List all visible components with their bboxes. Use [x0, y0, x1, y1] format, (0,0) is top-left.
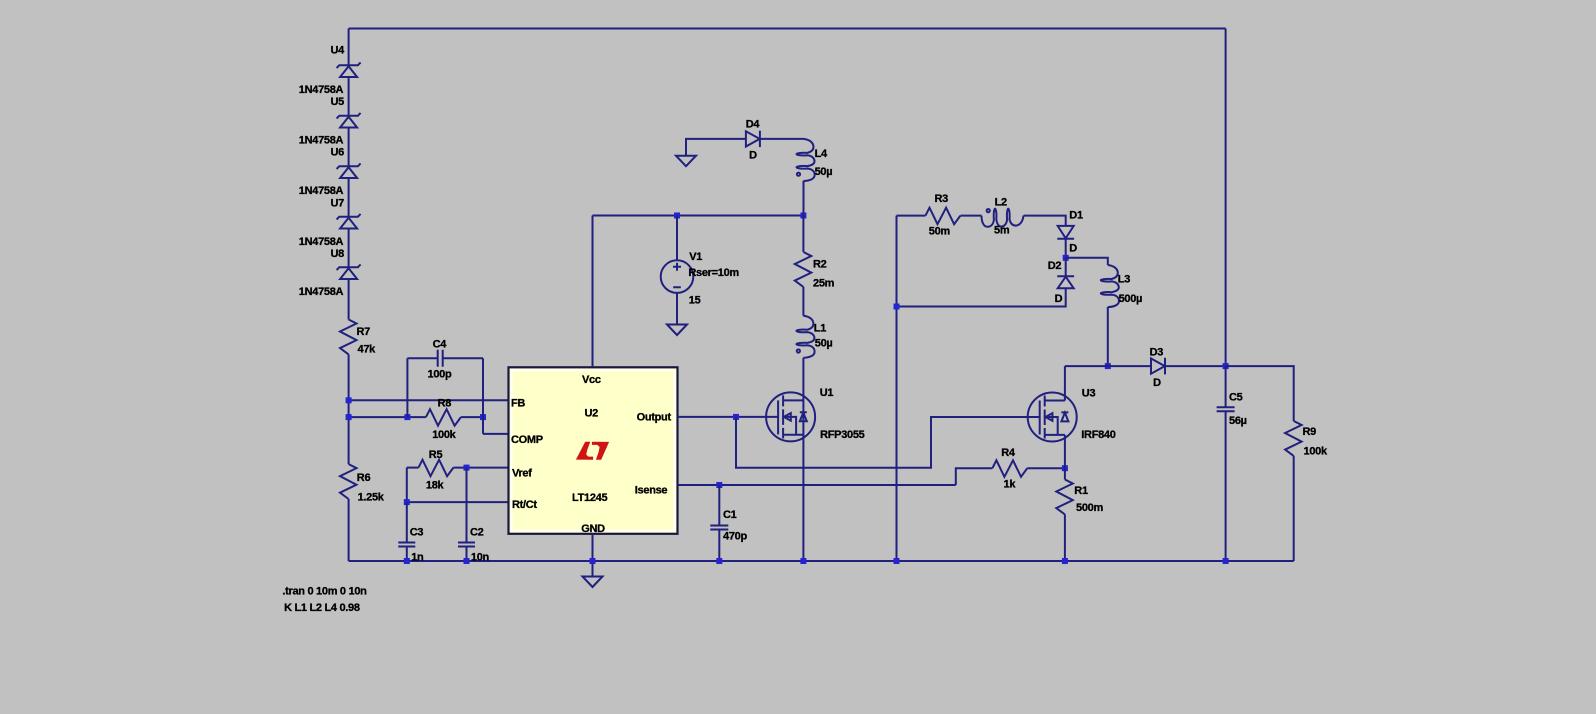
wire GND pin to ground: [592, 534, 594, 577]
svg-text:500m: 500m: [1076, 502, 1103, 514]
transistor U3 IRF840: [1028, 393, 1077, 442]
node V1 top junction: [674, 213, 680, 219]
svg-text:50m: 50m: [929, 225, 951, 237]
zener U4: [337, 62, 361, 77]
svg-text:L4: L4: [815, 148, 828, 160]
svg-text:L3: L3: [1118, 274, 1130, 286]
svg-text:50µ: 50µ: [815, 338, 833, 350]
svg-text:FB: FB: [511, 398, 525, 410]
wire Output pin to U1 gate: [678, 416, 779, 418]
wire D2 to left rail: [897, 288, 1066, 306]
svg-text:C2: C2: [470, 527, 484, 539]
diode D1: [1057, 226, 1074, 239]
svg-text:25m: 25m: [813, 278, 835, 290]
node left rail bottom junction: [894, 558, 900, 564]
wire bottom rail: [349, 560, 1294, 562]
svg-text:Isense: Isense: [635, 484, 668, 496]
resistor R5: [419, 460, 454, 477]
svg-text:U7: U7: [331, 198, 345, 210]
wire D1 to node: [1065, 239, 1067, 258]
svg-text:C5: C5: [1229, 392, 1243, 404]
node C5/top-rail junction: [1223, 363, 1229, 369]
wire D4 to L4: [760, 138, 804, 140]
wire L3 to D3 node: [1107, 307, 1109, 366]
wire Isense: [678, 484, 956, 486]
node GND rail junction: [590, 558, 596, 564]
resistor R6: [340, 464, 357, 499]
svg-text:R1: R1: [1074, 485, 1088, 497]
LT logo: [576, 442, 609, 460]
wire Vcc vertical: [592, 216, 594, 367]
wire Isense up to R4: [956, 468, 993, 485]
zener U8: [337, 264, 361, 279]
wire D3 to C5 node: [1165, 365, 1226, 367]
wire D3 row left: [1065, 365, 1151, 367]
wire C4 right vertical (COMP): [482, 358, 484, 434]
svg-text:D4: D4: [746, 119, 761, 131]
node Vref junction: [464, 465, 470, 471]
svg-text:100k: 100k: [432, 429, 456, 441]
resistor R7: [340, 320, 357, 355]
svg-text:100p: 100p: [428, 369, 452, 381]
svg-text:D3: D3: [1150, 347, 1164, 359]
svg-text:D2: D2: [1048, 260, 1062, 272]
wire U3 source down to R1: [1064, 435, 1066, 480]
wire L2 to D1: [1024, 216, 1066, 226]
svg-text:10n: 10n: [471, 552, 490, 564]
wire R3 to L2: [960, 215, 981, 217]
ground below GND pin: [583, 577, 603, 588]
svg-text:U5: U5: [331, 96, 345, 108]
resistor R2: [795, 252, 812, 287]
wire COMP: [483, 433, 508, 435]
svg-text:R9: R9: [1303, 426, 1317, 438]
svg-text:U6: U6: [331, 147, 345, 159]
capacitor C2: [458, 468, 475, 561]
wire L4 to Vcc node: [803, 181, 805, 216]
resistor R8: [426, 409, 461, 426]
wire node to D2: [1065, 258, 1067, 276]
wire U3 drain up to D3 row: [1064, 366, 1066, 400]
svg-text:500µ: 500µ: [1119, 293, 1143, 305]
voltage source V1: [661, 216, 694, 325]
svg-text:56µ: 56µ: [1229, 415, 1247, 427]
svg-text:U1: U1: [820, 387, 834, 399]
node U3 source/R1 junction: [1062, 465, 1068, 471]
svg-text:C1: C1: [723, 509, 737, 521]
svg-text:RFP3055: RFP3055: [820, 429, 865, 441]
svg-text:R8: R8: [438, 398, 452, 410]
diode D3: [1151, 358, 1165, 375]
resistor R1: [1056, 480, 1073, 515]
inductor L4: [797, 139, 815, 181]
svg-text:18k: 18k: [426, 480, 445, 492]
svg-text:Rt/Ct: Rt/Ct: [512, 499, 537, 511]
resistor R9: [1285, 421, 1302, 456]
svg-text:IRF840: IRF840: [1081, 429, 1115, 441]
inductor L2: [982, 209, 1024, 227]
wire U5-U6: [348, 128, 350, 167]
inductor L3: [1101, 265, 1119, 307]
diode D2: [1057, 276, 1074, 288]
wire corner to R3: [897, 215, 926, 217]
svg-text:5m: 5m: [994, 224, 1010, 236]
node C2 bottom junction: [464, 558, 470, 564]
svg-text:Vref: Vref: [512, 467, 532, 479]
node C3 bottom junction: [404, 558, 410, 564]
zener U5: [337, 113, 361, 128]
wire R1 to bottom rail: [1064, 514, 1066, 561]
capacitor C1: [710, 485, 728, 561]
node R1 bottom junction: [1062, 558, 1068, 564]
inductor L1: [796, 316, 814, 358]
svg-text:1k: 1k: [1004, 479, 1017, 491]
svg-text:U8: U8: [331, 248, 345, 260]
wire R5 left vertical: [406, 468, 408, 503]
wire FB: [349, 399, 508, 401]
wire top rail: [349, 28, 1226, 30]
svg-text:1N4758A: 1N4758A: [299, 185, 344, 197]
svg-text:R3: R3: [935, 193, 949, 205]
svg-text:.tran 0 10m 0 10n: .tran 0 10m 0 10n: [282, 586, 367, 598]
svg-text:R2: R2: [813, 258, 827, 270]
svg-text:LT1245: LT1245: [572, 492, 607, 504]
svg-text:15: 15: [689, 294, 701, 306]
resistor R3: [926, 208, 961, 225]
wire right drop to D3 node: [1225, 29, 1227, 367]
capacitor C4: [407, 350, 483, 367]
wire U4-U5: [348, 77, 350, 116]
ground below V1: [667, 325, 687, 336]
svg-text:L2: L2: [995, 196, 1007, 208]
wire U6-U7: [348, 178, 350, 217]
wire L1 to U1 drain and source to bottom rail: [802, 358, 804, 561]
wire U8-R7: [348, 279, 350, 320]
svg-text:470p: 470p: [723, 531, 747, 543]
wire C5 node to R9 corner: [1226, 366, 1294, 421]
svg-text:D: D: [1153, 377, 1161, 389]
svg-text:C3: C3: [410, 527, 424, 539]
wire R2 to L1: [802, 287, 804, 316]
node C5 bottom junction: [1223, 558, 1229, 564]
svg-text:D: D: [749, 150, 757, 162]
wire node to L3: [1066, 258, 1108, 265]
svg-text:1n: 1n: [411, 552, 424, 564]
svg-text:U4: U4: [331, 45, 346, 57]
svg-text:1N4758A: 1N4758A: [299, 134, 344, 146]
wire R6 to bottom rail: [348, 499, 350, 561]
svg-text:1N4758A: 1N4758A: [299, 236, 344, 248]
wire R4 to U3 source node: [1027, 467, 1065, 469]
svg-text:V1: V1: [689, 251, 702, 263]
svg-text:D: D: [1055, 293, 1063, 305]
svg-text:1N4758A: 1N4758A: [299, 286, 344, 298]
diode D4: [746, 131, 760, 147]
svg-text:R5: R5: [429, 449, 443, 461]
wire C4 left vertical: [406, 358, 408, 417]
node D1/D2/L3 junction: [1063, 255, 1069, 261]
svg-text:R6: R6: [357, 472, 371, 484]
svg-text:D: D: [1069, 243, 1077, 255]
wire U7-U8: [348, 229, 350, 268]
node C1 top junction: [716, 482, 722, 488]
svg-text:COMP: COMP: [511, 434, 543, 446]
resistor R4: [992, 460, 1027, 477]
svg-text:K L1 L2 L4 0.98: K L1 L2 L4 0.98: [284, 602, 360, 614]
svg-text:D1: D1: [1069, 209, 1083, 221]
node R8-COMP junction: [480, 414, 486, 420]
node Rt/Ct junction: [404, 499, 410, 505]
node Output junction: [733, 414, 739, 420]
svg-text:Vcc: Vcc: [582, 374, 601, 386]
wire Vcc node to R2: [802, 216, 804, 253]
node R8 rail junction: [346, 414, 352, 420]
node R8-C4 left junction: [404, 414, 410, 420]
svg-text:C4: C4: [433, 339, 448, 351]
svg-text:1.25k: 1.25k: [358, 492, 385, 504]
svg-text:100k: 100k: [1304, 446, 1328, 458]
node L3/D3 junction: [1105, 363, 1111, 369]
svg-text:Rser=10m: Rser=10m: [688, 267, 739, 279]
wire Output to U3 gate path: [736, 417, 1040, 468]
wire R8 row left: [349, 416, 426, 418]
svg-text:1N4758A: 1N4758A: [299, 84, 344, 96]
node C1 bottom junction: [716, 558, 722, 564]
svg-text:U2: U2: [585, 407, 599, 419]
transistor U1 RFP3055: [766, 392, 815, 441]
wire Vref row left: [407, 467, 419, 469]
node U1 source bottom junction: [800, 558, 806, 564]
wire Vcc horizontal: [593, 215, 804, 217]
capacitor C3: [398, 502, 415, 561]
svg-text:GND: GND: [581, 523, 605, 535]
zener U6: [337, 163, 361, 178]
wire left rail of R3 loop: [896, 216, 898, 561]
IC U2 LT1245 box: [509, 367, 678, 534]
svg-text:U3: U3: [1082, 388, 1096, 400]
wire gnd to D4: [686, 139, 746, 156]
wire R7 to R6 (FB rail): [348, 354, 350, 464]
svg-text:50µ: 50µ: [815, 166, 833, 178]
wire left drop to U4: [348, 29, 350, 66]
wire R8 row right: [461, 416, 483, 418]
node L4/R2 junction: [800, 213, 806, 219]
svg-text:L1: L1: [814, 323, 826, 335]
node FB junction: [346, 397, 352, 403]
node D2 return junction: [894, 304, 900, 310]
wire Rt/Ct: [407, 501, 508, 503]
svg-text:R4: R4: [1001, 447, 1016, 459]
svg-text:47k: 47k: [358, 344, 377, 356]
zener U7: [337, 214, 361, 229]
svg-text:Output: Output: [637, 412, 672, 424]
svg-text:R7: R7: [357, 326, 371, 338]
ground at D4 anode: [676, 156, 696, 167]
capacitor C5: [1217, 366, 1235, 561]
wire R9 to bottom rail: [1293, 456, 1295, 561]
wire Vref row right: [453, 467, 508, 469]
